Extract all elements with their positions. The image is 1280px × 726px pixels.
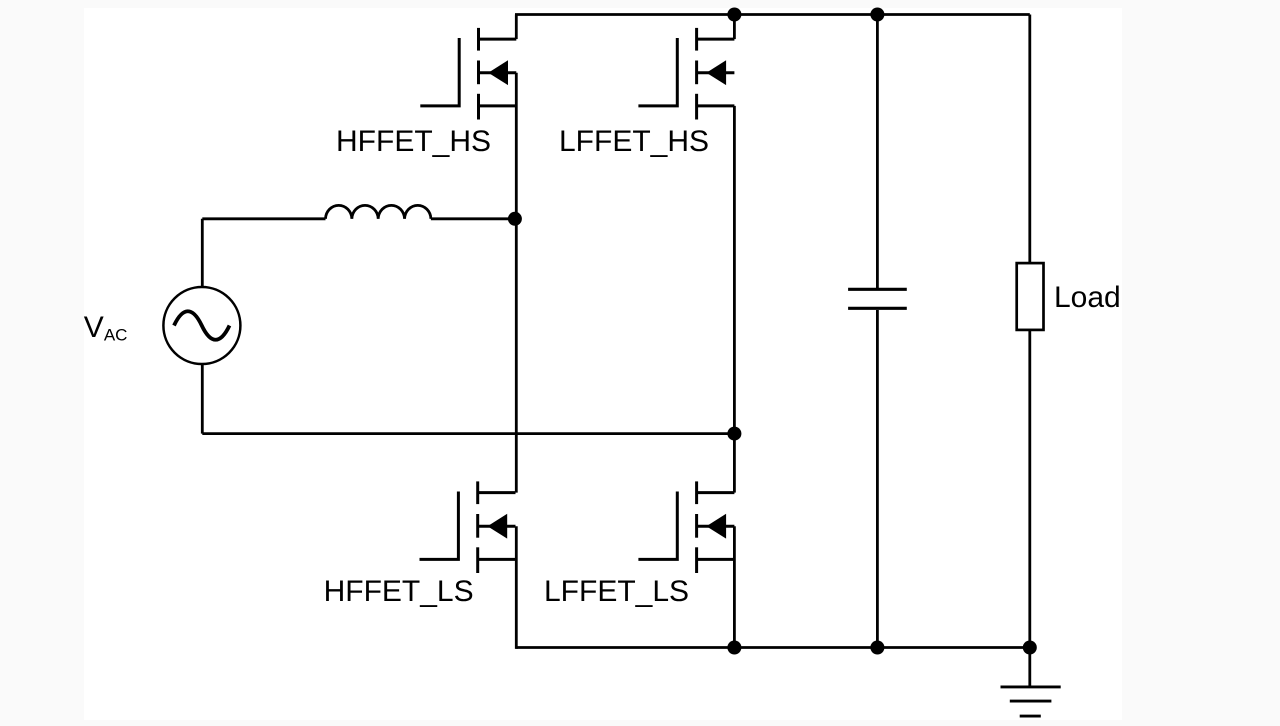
resistor Load [1017, 263, 1044, 330]
AC source V_AC [163, 287, 240, 364]
junction dot: switch node at inductor [508, 212, 522, 226]
wire: ground lead [1028, 648, 1031, 687]
junction dot: LF node [727, 427, 741, 441]
wire: bottom rail [516, 646, 1030, 649]
svg-text:LFFET_LS: LFFET_LS [544, 575, 689, 608]
wire: load top lead [1028, 15, 1031, 264]
svg-text:LFFET_HS: LFFET_HS [559, 125, 709, 158]
inductor L1 [326, 205, 431, 218]
wire: LFFET_LS source to bottom rail [733, 526, 736, 647]
wire: inductor to switch node [431, 217, 516, 220]
wire: top rail [515, 13, 1030, 16]
svg-text:Load: Load [1054, 281, 1121, 314]
wire: AC source bottom lead [201, 364, 204, 434]
svg-text:HFFET_LS: HFFET_LS [324, 575, 474, 608]
wire: AC source to inductor [202, 217, 325, 220]
wire: LFFET_HS source down to LF node [733, 106, 736, 434]
label HFFET_HS [336, 125, 491, 158]
junction dot: bottom rail / capacitor [870, 641, 884, 655]
label V_AC [84, 311, 128, 344]
label Load [1054, 281, 1121, 314]
wire: AC source top lead [201, 219, 204, 287]
wire: capacitor bottom lead [876, 310, 879, 648]
label LFFET_HS [559, 125, 709, 158]
wire: load bottom lead [1028, 330, 1031, 648]
wire: LF node down to LFFET_LS drain [733, 434, 736, 493]
wire: capacitor top lead [876, 15, 879, 289]
junction dot: top rail / capacitor [870, 8, 884, 22]
label HFFET_LS [324, 575, 474, 608]
label LFFET_LS [544, 575, 689, 608]
wire: AC return to LF leg [202, 432, 734, 435]
capacitor C1 plates [848, 289, 907, 308]
junction dot: bottom rail / LFFET_LS [727, 641, 741, 655]
transistor HFFET_LS [420, 481, 516, 573]
transistor LFFET_LS [638, 481, 734, 573]
junction dot: bottom rail / ground [1023, 641, 1037, 655]
wire: HF switch-node leg (HFFET_HS source to HFFET_LS drain) [515, 73, 518, 493]
transistor LFFET_HS [638, 28, 734, 120]
wire: HFFET_HS drain lead up to top rail [515, 15, 518, 40]
junction dot: top rail / LFFET_HS drain [727, 8, 741, 22]
transistor HFFET_HS [420, 28, 516, 120]
wire: LFFET_HS drain lead [733, 15, 736, 40]
wire: HFFET_LS source to bottom rail [515, 526, 518, 649]
ground [1001, 687, 1061, 716]
svg-text:HFFET_HS: HFFET_HS [336, 125, 491, 158]
